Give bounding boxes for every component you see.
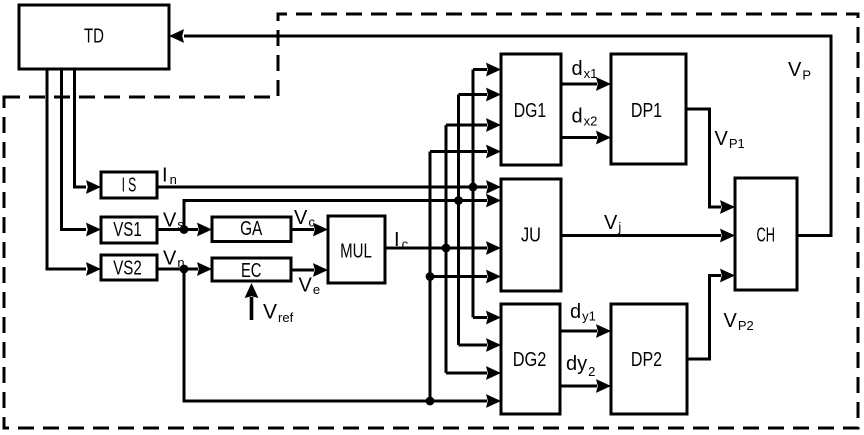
node Vs junction [180, 225, 189, 234]
block TD [19, 5, 169, 69]
svg-text:Vj: Vj [604, 212, 621, 235]
svg-text:VP: VP [788, 59, 811, 83]
block IS [101, 172, 157, 198]
svg-text:VP1: VP1 [715, 128, 745, 151]
label Vn [163, 248, 185, 271]
svg-text:TD: TD [84, 26, 104, 48]
label dy2 [566, 353, 595, 379]
block EC [212, 258, 291, 282]
svg-text:Vc: Vc [294, 207, 315, 230]
wire Vn stub into DG1 [430, 145, 501, 159]
wire dx2 from DG1 to DP1 [561, 131, 611, 145]
svg-text:Ic: Ic [394, 229, 409, 252]
wire Ic from MUL to JU [385, 241, 501, 255]
svg-text:VS1: VS1 [113, 219, 142, 241]
block VS2 [101, 255, 157, 280]
wire In from IS to JU [157, 180, 501, 194]
svg-text:Vref: Vref [263, 301, 294, 326]
wire In stub into DG1 [473, 63, 501, 77]
wire dy1 from DG2 to DP2 [560, 324, 611, 338]
wire Vn branch down to bottom bus [184, 269, 501, 408]
wire VS1 to GA [157, 223, 212, 237]
wire bus vertical Ic (x=446) [445, 125, 448, 373]
svg-text:MUL: MUL [340, 241, 372, 263]
svg-text:dx2: dx2 [572, 106, 598, 129]
svg-text:Vn: Vn [163, 248, 185, 271]
block VS1 [101, 217, 157, 243]
wire Vs stub into DG2 [459, 338, 502, 352]
wire dx1 from DG1 to DP1 [561, 77, 611, 91]
wire Vs stub into DG1 [459, 88, 502, 102]
node Vs-bus junction [454, 196, 463, 205]
svg-text:CH: CH [756, 225, 775, 247]
wire VS2 to EC [157, 262, 212, 276]
arrow Vref into EC [245, 283, 259, 320]
wire VP2 from DP2 to CH [687, 269, 735, 359]
label In [162, 165, 177, 188]
label dy1 [570, 301, 596, 324]
wire bus vertical Vn (x=430) [429, 152, 432, 402]
node Vn bottom junction [426, 397, 435, 406]
svg-text:DG1: DG1 [514, 100, 546, 122]
label Vc [294, 207, 315, 230]
svg-text:Vs: Vs [163, 210, 184, 233]
node Vn junction [180, 265, 189, 274]
wire dy2 from DG2 to DP2 [560, 379, 611, 393]
svg-text:dx1: dx1 [572, 58, 598, 81]
svg-text:In: In [162, 165, 177, 188]
block DG1 [501, 54, 561, 165]
label VP1 [715, 128, 745, 151]
wire Vs branch to JU [184, 194, 501, 230]
svg-text:VS2: VS2 [113, 258, 142, 280]
node Vn-JU junction [426, 272, 435, 281]
wire TD to IS [75, 69, 102, 194]
label VP2 [724, 310, 754, 333]
wire Ic stub into DG2 [446, 366, 501, 380]
wire TD to VS1 [62, 69, 102, 236]
svg-text:EC: EC [241, 260, 262, 282]
block GA [212, 217, 291, 242]
wire Ic stub into DG1 [446, 118, 501, 132]
svg-text:DP1: DP1 [631, 100, 662, 122]
svg-text:DG2: DG2 [513, 349, 547, 371]
block CH [735, 178, 797, 290]
node In-bus junction [469, 183, 478, 192]
wire In stub into DG2 [473, 311, 501, 325]
svg-text:dy2: dy2 [566, 353, 595, 379]
svg-text:VP2: VP2 [724, 310, 754, 333]
label Vs [163, 210, 184, 233]
svg-text:IS: IS [122, 175, 140, 197]
svg-text:JU: JU [521, 225, 541, 247]
wire Ve from EC to MUL [291, 263, 328, 277]
svg-text:dy1: dy1 [570, 301, 596, 324]
wire Vn tee to JU [430, 270, 501, 284]
label dx1 [572, 58, 598, 81]
block DP2 [611, 304, 687, 414]
wire VP feedback from CH to TD [169, 29, 831, 235]
label Vref [263, 301, 294, 326]
svg-text:Ve: Ve [299, 275, 321, 298]
wire VP1 from DP1 to CH [686, 109, 735, 214]
block DP1 [611, 54, 686, 164]
label dx2 [572, 106, 598, 129]
wire bus vertical Vs (x=458.5) [457, 95, 460, 346]
label VP [788, 59, 811, 83]
node Ic junction [442, 244, 451, 253]
block MUL [328, 216, 385, 283]
wire TD to VS2 [47, 69, 101, 276]
wire bus vertical In (x=473) [472, 70, 475, 318]
svg-text:DP2: DP2 [631, 349, 662, 371]
block JU [501, 179, 561, 291]
block DG2 [501, 304, 560, 414]
svg-text:GA: GA [240, 218, 263, 240]
label Ic [394, 229, 409, 252]
wire Vj from JU to CH [561, 229, 735, 243]
label Ve [299, 275, 321, 298]
wire Vc from GA to MUL [291, 223, 328, 237]
label Vj [604, 212, 621, 235]
